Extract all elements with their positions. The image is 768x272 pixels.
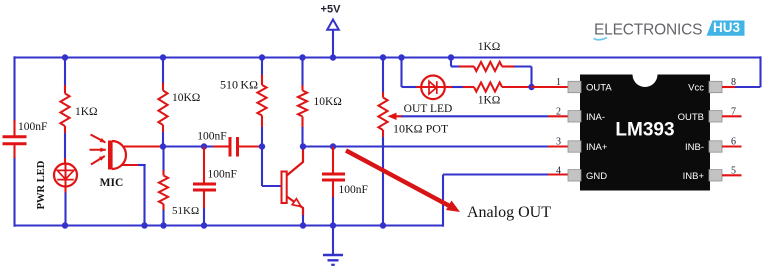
node ground rail / 51K bbox=[160, 222, 166, 228]
power +5V arrow symbol bbox=[327, 20, 339, 30]
pin 2 stub bbox=[568, 111, 581, 122]
resistor R6 1K (lower) bbox=[474, 82, 502, 91]
op-amp U1 LM393 body bbox=[580, 75, 710, 191]
node ground rail / pot bbox=[380, 222, 386, 228]
pin 1 stub bbox=[568, 81, 581, 92]
node top rail / R5 bbox=[299, 54, 305, 60]
svg-text:+5V: +5V bbox=[321, 4, 342, 16]
wire pot bottom lead bbox=[382, 130, 384, 138]
OUT LED D2 bbox=[421, 76, 445, 100]
svg-text:ELECTRONICS: ELECTRONICS bbox=[594, 22, 703, 39]
pin 6 stub bbox=[709, 141, 722, 152]
wire collector line to INA+ bbox=[303, 145, 548, 147]
wire R4 bottom lead bbox=[261, 116, 263, 129]
svg-text:2: 2 bbox=[556, 106, 561, 117]
svg-text:LM393: LM393 bbox=[615, 120, 674, 141]
node collector junction bbox=[300, 143, 306, 149]
node ground rail / emitter bbox=[300, 222, 306, 228]
node top rail / OUT LED bbox=[398, 54, 404, 60]
svg-text:10KΩ: 10KΩ bbox=[172, 92, 200, 104]
wire R2 top lead bbox=[162, 58, 164, 85]
wire wiper to INA- bbox=[402, 115, 549, 117]
wire R7 right lead bbox=[502, 65, 515, 67]
svg-text:INB-: INB- bbox=[685, 142, 704, 153]
node mic junction bbox=[160, 143, 166, 149]
node top rail / pot bbox=[380, 54, 386, 60]
microphone MIC body bbox=[108, 141, 113, 170]
wire R1 top lead bbox=[64, 58, 66, 87]
wire R7 left lead bbox=[450, 58, 452, 67]
resistor R7 1K (upper) bbox=[474, 62, 502, 71]
node filter cap junction bbox=[201, 143, 207, 149]
wire 51K top lead bbox=[162, 147, 164, 172]
svg-text:51KΩ: 51KΩ bbox=[172, 205, 199, 217]
resistor R3 51K bbox=[159, 176, 168, 205]
logo underline tick bbox=[594, 38, 608, 40]
wire top +5V rail bbox=[15, 56, 761, 58]
wire R4 top lead bbox=[261, 58, 263, 76]
wire bottom ground rail bbox=[15, 224, 444, 226]
node top rail / R2 bbox=[160, 54, 166, 60]
node base junction bbox=[259, 143, 265, 149]
wire base bbox=[261, 147, 263, 187]
pin 5 stub bbox=[709, 170, 722, 181]
microphone MIC sound arrows bbox=[91, 135, 106, 143]
potentiometer RV1 10K bbox=[378, 98, 387, 131]
resistor R5 10K bbox=[298, 91, 307, 117]
PWR LED D1 bbox=[54, 164, 77, 187]
wire OUT LED right lead bbox=[445, 86, 454, 88]
node ground rail / MIC bbox=[141, 222, 147, 228]
capacitor C3 100nF (coupling) bbox=[229, 137, 232, 157]
wire C3 to base node bbox=[238, 145, 263, 147]
transistor Q1 bbox=[282, 172, 287, 204]
wire C4 to ground rail bbox=[332, 180, 334, 198]
wire pin8 Vcc red stub bbox=[722, 86, 735, 88]
node top rail / +5V bbox=[330, 54, 336, 60]
wire R6 to OUTA node bbox=[502, 86, 532, 88]
wire OUT LED left lead bbox=[400, 58, 402, 88]
wire OUTA node to pin1 bbox=[532, 86, 570, 88]
resistor R4 510K bbox=[257, 85, 266, 116]
wire 51K bottom lead bbox=[162, 204, 164, 211]
wire MIC top terminal bbox=[123, 145, 164, 147]
svg-text:510 KΩ: 510 KΩ bbox=[220, 78, 258, 92]
capacitor C2 100nF (filter) bbox=[203, 147, 205, 184]
wire pot top lead bbox=[382, 58, 384, 94]
pin 4 stub bbox=[568, 170, 581, 181]
wire pin7 stub bbox=[722, 115, 742, 117]
wire C2 to ground rail bbox=[203, 190, 205, 209]
wire R2 bottom lead bbox=[162, 125, 164, 133]
wire emitter to ground rail bbox=[302, 215, 304, 226]
node top rail / R1 bbox=[62, 54, 68, 60]
pin 3 stub bbox=[568, 141, 581, 152]
annotation arrow Analog OUT bbox=[346, 151, 451, 207]
wire R5 bottom lead bbox=[301, 117, 303, 129]
svg-text:10KΩ: 10KΩ bbox=[314, 96, 342, 108]
wire pin6 stub bbox=[722, 145, 742, 147]
svg-text:100nF: 100nF bbox=[197, 131, 226, 143]
node ground rail / C4 bbox=[330, 222, 336, 228]
wire MIC bottom terminal bbox=[121, 164, 139, 166]
wire R5 top lead bbox=[301, 58, 303, 87]
logo HUB badge bbox=[707, 21, 745, 36]
ground symbol bbox=[323, 254, 343, 256]
wire ground rail riser to GND pin bbox=[442, 175, 444, 227]
wire to ground symbol bbox=[332, 226, 334, 255]
node collector line / C4 bbox=[330, 143, 336, 149]
svg-text:100nF: 100nF bbox=[339, 184, 368, 196]
svg-text:HU3: HU3 bbox=[713, 20, 740, 35]
svg-text:10KΩ POT: 10KΩ POT bbox=[393, 122, 449, 136]
pot wiper arrow bbox=[388, 113, 397, 120]
wire right drop to Vcc bbox=[759, 56, 761, 87]
svg-text:Vcc: Vcc bbox=[688, 83, 704, 94]
node ground rail / C2 bbox=[201, 222, 207, 228]
svg-text:OUT LED: OUT LED bbox=[404, 103, 453, 115]
svg-text:100nF: 100nF bbox=[208, 169, 237, 181]
svg-text:Analog OUT: Analog OUT bbox=[467, 204, 551, 221]
svg-text:GND: GND bbox=[586, 171, 607, 182]
svg-text:INA-: INA- bbox=[586, 112, 605, 123]
resistor R2 10K bbox=[158, 91, 167, 126]
capacitor C4 100nF bbox=[332, 147, 334, 174]
node OUTA junction bbox=[528, 84, 534, 90]
svg-text:4: 4 bbox=[556, 165, 561, 176]
svg-text:1KΩ: 1KΩ bbox=[478, 95, 501, 107]
node ground rail / PWR LED bbox=[62, 222, 68, 228]
wire left rail lower bbox=[13, 145, 15, 160]
pin 8 stub bbox=[709, 81, 722, 92]
svg-text:1KΩ: 1KΩ bbox=[478, 41, 501, 53]
svg-text:INA+: INA+ bbox=[586, 142, 608, 153]
svg-text:INB+: INB+ bbox=[683, 171, 705, 182]
svg-text:3: 3 bbox=[556, 137, 561, 148]
svg-text:1KΩ: 1KΩ bbox=[75, 106, 98, 118]
node top rail / R4 bbox=[259, 54, 265, 60]
wire R1 to PWR LED bbox=[64, 126, 66, 134]
resistor R1 1K bbox=[60, 94, 69, 127]
svg-text:OUTB: OUTB bbox=[678, 112, 704, 123]
svg-text:PWR LED: PWR LED bbox=[36, 160, 47, 209]
svg-text:100nF: 100nF bbox=[18, 121, 47, 133]
svg-text:1: 1 bbox=[556, 77, 561, 88]
capacitor C1 100nF (left rail) bbox=[3, 135, 27, 138]
wire pin4 red lead bbox=[548, 173, 569, 175]
svg-text:OUTA: OUTA bbox=[586, 83, 612, 94]
wire pin5 stub bbox=[722, 174, 742, 176]
wire mic node to coupling cap bbox=[163, 145, 214, 147]
wire left rail upper bbox=[13, 56, 15, 121]
svg-text:MIC: MIC bbox=[100, 177, 124, 189]
wire PWR LED to ground rail bbox=[64, 193, 66, 226]
node top rail / R7 bbox=[448, 54, 454, 60]
pin 7 stub bbox=[709, 111, 722, 122]
